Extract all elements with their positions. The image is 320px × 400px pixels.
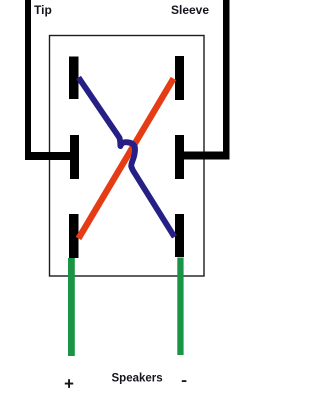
terminal bottom-left	[69, 214, 79, 258]
label - (right speaker polarity)	[182, 380, 187, 382]
switch body (DPDT box outline)	[50, 36, 205, 277]
terminal middle-right	[175, 135, 184, 179]
terminal top-left	[69, 57, 79, 100]
terminal bottom-right	[175, 214, 184, 257]
wire: Tip lead horizontal to middle-left terminal	[25, 152, 71, 160]
terminal top-right	[175, 56, 184, 100]
wire: blue crossover with hop (top-left terminal to bottom-right terminal)	[79, 78, 175, 238]
wire: green speaker lead left	[68, 258, 75, 356]
svg-text:Tip: Tip	[34, 3, 52, 17]
wire: red crossover (bottom-left terminal to top-right terminal)	[79, 79, 174, 239]
wire: Sleeve lead vertical (right thick black)	[223, 0, 230, 160]
svg-text:Speakers: Speakers	[112, 373, 163, 385]
label + (left speaker polarity)	[65, 383, 73, 385]
wire: Sleeve lead horizontal to middle-right terminal	[184, 152, 230, 160]
wire: green speaker lead right	[177, 258, 183, 356]
svg-text:Sleeve: Sleeve	[171, 3, 209, 17]
wire: Tip lead vertical (left thick black)	[25, 0, 31, 160]
terminal middle-left	[70, 135, 79, 179]
